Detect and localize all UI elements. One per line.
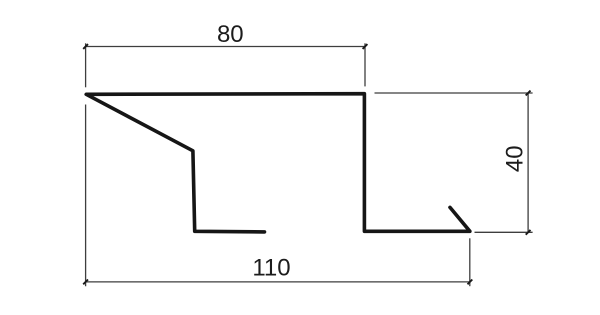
tick right end dim 80 [363,44,368,49]
extension line top of dim 40 [375,92,533,94]
svg-text:40: 40 [501,145,528,172]
extension line right of dim 110 [469,238,471,286]
profile outline (sheet metal flashing section) [86,94,470,232]
dimension line 110 (bottom) [86,281,470,283]
dimension line 80 (top) [86,46,365,48]
svg-text:80: 80 [217,21,244,48]
tick bottom end dim 40 [526,230,531,235]
extension line left of dim 110 [85,105,87,287]
tick top end dim 40 [526,91,531,96]
tick left end dim 80 [83,44,88,49]
svg-text:110: 110 [252,255,290,282]
dimension line 40 (right, vertical) [527,93,529,232]
tick right end dim 110 [468,280,473,285]
extension line bottom of dim 40 [475,231,533,233]
tick left end dim 110 [83,280,88,285]
extension line left of dim 80 [85,43,87,87]
extension line right of dim 80 [364,43,366,86]
